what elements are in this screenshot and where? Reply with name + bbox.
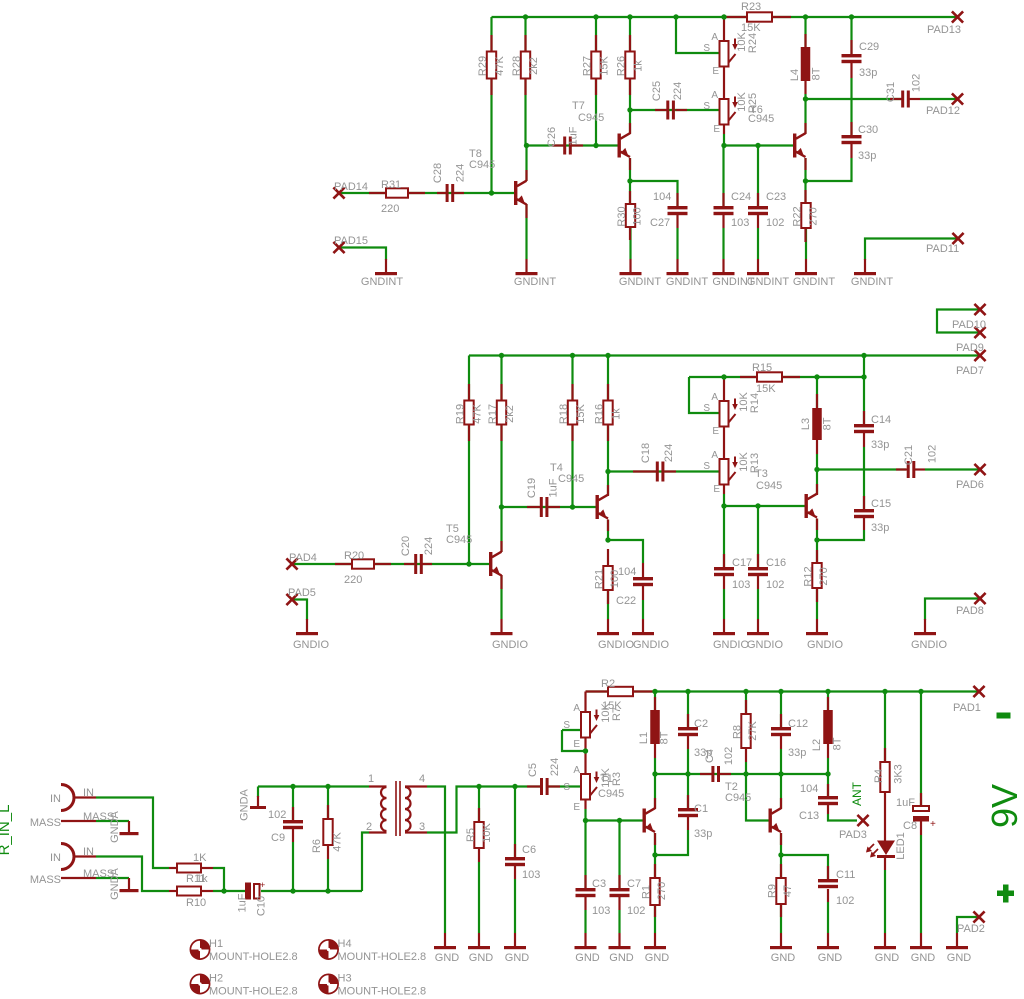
svg-text:104: 104: [618, 566, 636, 578]
svg-text:C945: C945: [469, 159, 495, 171]
svg-text:15K: 15K: [741, 22, 761, 34]
svg-text:C18: C18: [640, 443, 652, 463]
svg-text:4: 4: [419, 773, 425, 785]
svg-text:1k: 1k: [196, 873, 208, 885]
svg-text:R20: R20: [344, 550, 364, 562]
svg-text:C31: C31: [885, 82, 897, 102]
svg-text:PAD11: PAD11: [926, 243, 959, 255]
svg-text:GNDIO: GNDIO: [293, 639, 330, 651]
svg-text:1k: 1k: [611, 408, 623, 420]
svg-text:GNDA: GNDA: [239, 788, 251, 820]
svg-text:47K: 47K: [472, 404, 484, 424]
svg-text:GND: GND: [947, 952, 972, 964]
svg-text:C26: C26: [546, 127, 558, 147]
svg-text:PAD2: PAD2: [957, 923, 985, 935]
svg-text:224: 224: [663, 444, 675, 462]
svg-text:GND: GND: [818, 952, 843, 964]
svg-text:8T: 8T: [822, 417, 834, 430]
svg-text:A: A: [573, 765, 580, 776]
svg-text:C2: C2: [694, 718, 708, 730]
svg-text:GND: GND: [875, 952, 900, 964]
svg-text:R21: R21: [594, 569, 606, 589]
svg-text:C15: C15: [871, 498, 891, 510]
svg-text:R7: R7: [611, 707, 623, 721]
svg-text:GNDINT: GNDINT: [619, 276, 661, 288]
svg-text:GND: GND: [771, 952, 796, 964]
svg-text:A: A: [711, 392, 718, 403]
svg-text:C24: C24: [731, 191, 751, 203]
svg-text:C22: C22: [616, 595, 636, 607]
svg-text:R27: R27: [582, 56, 594, 76]
svg-text:220: 220: [381, 203, 399, 215]
svg-text:102: 102: [927, 445, 939, 463]
svg-text:C29: C29: [859, 41, 879, 53]
svg-text:C13: C13: [799, 810, 819, 822]
svg-text:PAD7: PAD7: [956, 365, 984, 377]
svg-text:A: A: [573, 703, 580, 714]
svg-text:GND: GND: [575, 952, 600, 964]
svg-text:GNDINT: GNDINT: [666, 276, 708, 288]
svg-text:GND: GND: [505, 952, 530, 964]
svg-text:47: 47: [782, 885, 794, 897]
svg-text:1k: 1k: [633, 60, 645, 72]
svg-text:MASS: MASS: [30, 817, 61, 829]
svg-text:R18: R18: [558, 404, 570, 424]
svg-text:MOUNT-HOLE2.8: MOUNT-HOLE2.8: [209, 951, 298, 963]
svg-text:L1: L1: [638, 732, 650, 744]
svg-text:GND: GND: [469, 952, 494, 964]
svg-text:3K3: 3K3: [893, 764, 905, 784]
svg-text:224: 224: [455, 164, 467, 182]
svg-text:1uF: 1uF: [237, 893, 249, 912]
svg-text:PAD13: PAD13: [927, 24, 961, 36]
svg-text:2: 2: [366, 821, 372, 833]
svg-text:R23: R23: [741, 1, 761, 13]
svg-text:T3: T3: [755, 468, 768, 480]
svg-text:47K: 47K: [332, 832, 344, 852]
svg-text:103: 103: [732, 579, 750, 591]
svg-text:L3: L3: [800, 418, 812, 430]
svg-text:IN: IN: [83, 846, 94, 858]
svg-text:PAD1: PAD1: [953, 702, 981, 714]
svg-text:A: A: [711, 90, 718, 101]
svg-text:C10: C10: [256, 896, 268, 916]
svg-text:R16: R16: [594, 404, 606, 424]
svg-text:C945: C945: [578, 112, 604, 124]
svg-text:PAD10: PAD10: [952, 319, 986, 331]
svg-text:33p: 33p: [788, 747, 806, 759]
svg-text:104: 104: [653, 191, 671, 203]
svg-text:10K: 10K: [481, 823, 493, 843]
svg-text:GNDA: GNDA: [109, 867, 121, 899]
svg-text:MOUNT-HOLE2.8: MOUNT-HOLE2.8: [338, 986, 427, 998]
svg-text:T7: T7: [572, 100, 585, 112]
svg-text:C16: C16: [766, 557, 786, 569]
svg-text:R14: R14: [749, 393, 761, 413]
svg-text:PAD15: PAD15: [334, 235, 368, 247]
svg-text:C3: C3: [592, 878, 606, 890]
svg-text:H1: H1: [209, 938, 223, 950]
svg-text:LED1: LED1: [895, 832, 907, 860]
svg-text:2k2: 2k2: [528, 57, 540, 75]
svg-text:R10: R10: [186, 897, 206, 909]
svg-text:L4: L4: [789, 69, 801, 81]
svg-text:R31: R31: [381, 179, 401, 191]
svg-text:224: 224: [549, 758, 561, 776]
svg-text:1: 1: [368, 773, 374, 785]
svg-text:S: S: [703, 461, 710, 472]
svg-text:C8: C8: [903, 820, 917, 832]
svg-text:C28: C28: [432, 163, 444, 183]
svg-text:8T: 8T: [811, 67, 823, 80]
svg-text:102: 102: [268, 809, 286, 821]
svg-text:270: 270: [818, 567, 830, 585]
svg-text:E: E: [712, 426, 719, 437]
svg-text:R4: R4: [873, 769, 885, 783]
svg-text:S: S: [563, 782, 570, 793]
svg-text:PAD8: PAD8: [956, 605, 984, 617]
svg-text:GNDINT: GNDINT: [747, 276, 789, 288]
svg-text:102: 102: [766, 217, 784, 229]
svg-text:C23: C23: [766, 191, 786, 203]
svg-text:102: 102: [911, 74, 923, 92]
svg-text:GND: GND: [645, 952, 670, 964]
svg-text:8T: 8T: [659, 731, 671, 744]
svg-text:C17: C17: [732, 557, 752, 569]
svg-text:GNDIO: GNDIO: [633, 639, 670, 651]
svg-text:R1: R1: [641, 885, 653, 899]
svg-text:A: A: [711, 32, 718, 43]
svg-text:R2: R2: [601, 678, 615, 690]
svg-text:+: +: [260, 880, 265, 890]
svg-text:102: 102: [723, 747, 735, 765]
svg-text:33p: 33p: [859, 67, 877, 79]
svg-text:102: 102: [836, 895, 854, 907]
svg-text:PAD12: PAD12: [926, 105, 960, 117]
svg-text:GND: GND: [609, 952, 634, 964]
svg-text:E: E: [713, 484, 720, 495]
svg-text:R22: R22: [792, 206, 804, 226]
svg-text:S: S: [703, 403, 710, 414]
svg-text:R17: R17: [487, 404, 499, 424]
svg-text:27K: 27K: [747, 721, 759, 741]
svg-text:C21: C21: [903, 445, 915, 465]
svg-text:224: 224: [672, 82, 684, 100]
svg-text:GNDINT: GNDINT: [514, 276, 556, 288]
svg-text:3: 3: [419, 821, 425, 833]
svg-text:102: 102: [766, 579, 784, 591]
svg-text:GNDINT: GNDINT: [361, 276, 403, 288]
svg-text:C27: C27: [650, 217, 670, 229]
svg-text:R9: R9: [767, 884, 779, 898]
svg-text:H3: H3: [338, 973, 352, 985]
svg-text:C1: C1: [694, 803, 708, 815]
svg-text:A: A: [711, 450, 718, 461]
svg-text:MASS: MASS: [30, 874, 61, 886]
svg-text:S: S: [703, 101, 710, 112]
svg-text:MOUNT-HOLE2.8: MOUNT-HOLE2.8: [209, 986, 298, 998]
svg-text:R28: R28: [511, 56, 523, 76]
svg-text:15K: 15K: [599, 56, 611, 76]
svg-text:1K: 1K: [193, 852, 207, 864]
svg-text:R5: R5: [465, 828, 477, 842]
svg-text:PAD6: PAD6: [956, 479, 984, 491]
svg-text:PAD9: PAD9: [956, 342, 984, 354]
svg-text:33p: 33p: [871, 522, 889, 534]
svg-text:+: +: [930, 819, 936, 830]
svg-text:GNDIO: GNDIO: [598, 639, 635, 651]
svg-text:C945: C945: [446, 534, 472, 546]
svg-text:1uF: 1uF: [896, 797, 915, 809]
svg-text:R26: R26: [616, 56, 628, 76]
svg-text:100: 100: [632, 207, 644, 225]
svg-text:PAD5: PAD5: [288, 587, 316, 599]
svg-text:H2: H2: [209, 973, 223, 985]
svg-text:R_IN_L: R_IN_L: [0, 805, 13, 856]
svg-text:102: 102: [627, 905, 645, 917]
svg-text:ANT: ANT: [850, 781, 864, 806]
svg-text:C5: C5: [527, 763, 539, 777]
svg-text:R29: R29: [477, 56, 489, 76]
svg-text:R6: R6: [311, 839, 323, 853]
svg-text:S: S: [563, 720, 570, 731]
svg-text:15K: 15K: [575, 404, 587, 424]
svg-text:C6: C6: [522, 844, 536, 856]
svg-text:33p: 33p: [858, 150, 876, 162]
svg-text:L2: L2: [811, 739, 823, 751]
svg-text:GNDINT: GNDINT: [793, 276, 835, 288]
svg-text:33p: 33p: [694, 747, 712, 759]
svg-text:GNDIO: GNDIO: [713, 639, 750, 651]
svg-text:C9: C9: [271, 832, 285, 844]
svg-text:GNDIO: GNDIO: [911, 639, 948, 651]
svg-text:C945: C945: [748, 113, 774, 125]
svg-text:1uF: 1uF: [568, 126, 580, 145]
svg-text:47K: 47K: [494, 56, 506, 76]
svg-text:103: 103: [731, 217, 749, 229]
svg-text:GND: GND: [911, 952, 936, 964]
svg-text:IN: IN: [83, 787, 94, 799]
svg-text:H4: H4: [338, 938, 352, 950]
svg-text:270: 270: [656, 882, 668, 900]
svg-text:C945: C945: [725, 792, 751, 804]
svg-text:C945: C945: [756, 480, 782, 492]
svg-text:IN: IN: [50, 793, 61, 805]
svg-text:8T: 8T: [832, 737, 844, 750]
svg-text:C945: C945: [598, 788, 624, 800]
svg-text:R19: R19: [455, 404, 467, 424]
svg-text:GNDIO: GNDIO: [807, 639, 844, 651]
svg-text:E: E: [573, 739, 580, 750]
svg-text:C25: C25: [651, 81, 663, 101]
svg-text:GNDIO: GNDIO: [747, 639, 784, 651]
svg-text:GNDA: GNDA: [109, 810, 121, 842]
svg-text:C14: C14: [871, 414, 891, 426]
svg-text:33p: 33p: [871, 439, 889, 451]
svg-text:C19: C19: [526, 478, 538, 498]
svg-text:PAD4: PAD4: [289, 552, 317, 564]
svg-text:103: 103: [592, 905, 610, 917]
svg-text:S: S: [703, 43, 710, 54]
svg-text:270: 270: [808, 207, 820, 225]
svg-text:C7: C7: [627, 878, 641, 890]
svg-text:GND: GND: [435, 952, 460, 964]
svg-text:33p: 33p: [694, 828, 712, 840]
svg-text:IN: IN: [50, 852, 61, 864]
svg-text:220: 220: [344, 574, 362, 586]
svg-text:2k2: 2k2: [504, 405, 516, 423]
svg-text:R12: R12: [803, 566, 815, 586]
svg-text:R8: R8: [732, 725, 744, 739]
svg-text:103: 103: [522, 869, 540, 881]
svg-text:PAD3: PAD3: [839, 829, 867, 841]
svg-text:104: 104: [800, 783, 818, 795]
svg-text:C945: C945: [558, 473, 584, 485]
svg-text:C11: C11: [836, 869, 855, 881]
svg-text:GNDIO: GNDIO: [492, 639, 529, 651]
svg-text:C20: C20: [400, 536, 412, 556]
svg-text:GNDINT: GNDINT: [851, 276, 893, 288]
svg-text:224: 224: [423, 537, 435, 555]
svg-text:R24: R24: [747, 33, 759, 53]
svg-text:T1: T1: [600, 773, 613, 785]
svg-text:9V: 9V: [984, 784, 1024, 828]
svg-text:C12: C12: [788, 718, 808, 730]
svg-text:C30: C30: [858, 124, 878, 136]
svg-text:R30: R30: [616, 206, 628, 226]
svg-text:MOUNT-HOLE2.8: MOUNT-HOLE2.8: [338, 951, 427, 963]
svg-text:R15: R15: [752, 362, 772, 374]
svg-text:E: E: [573, 802, 580, 813]
svg-text:E: E: [712, 66, 719, 77]
svg-text:PAD14: PAD14: [334, 181, 368, 193]
svg-text:E: E: [713, 124, 720, 135]
